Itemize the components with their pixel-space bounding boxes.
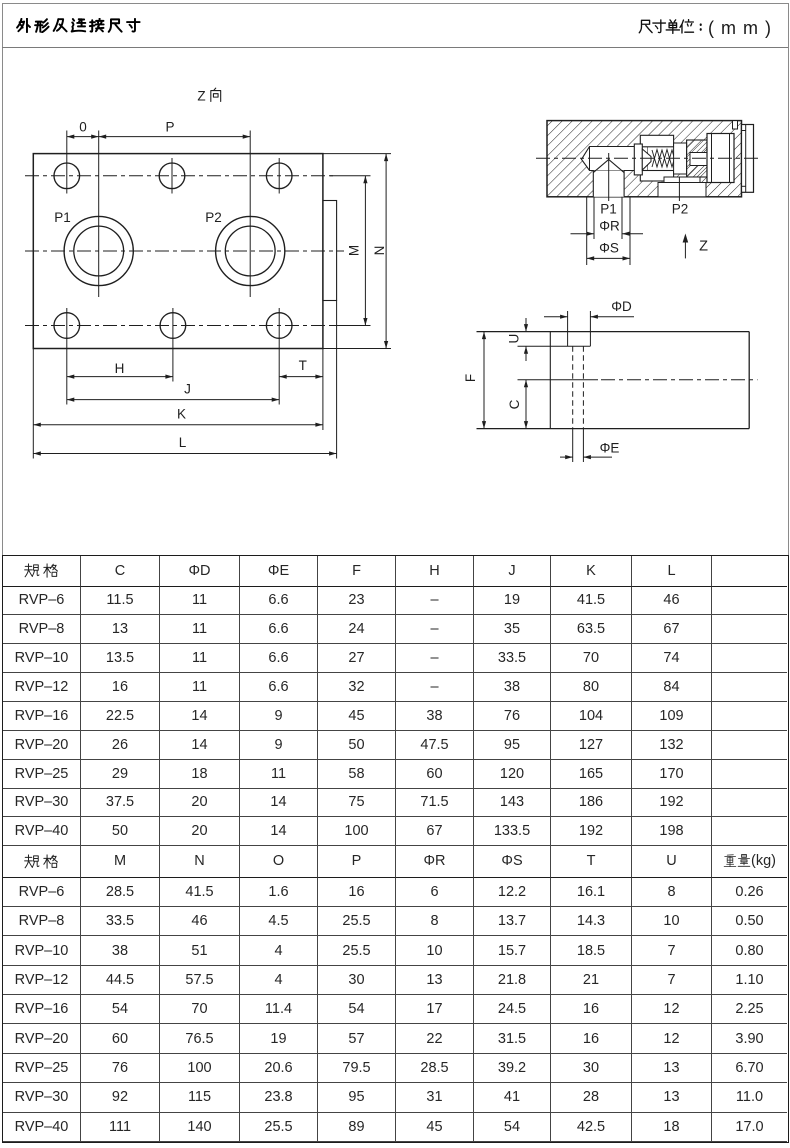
section: end cap <box>742 125 754 193</box>
centerline ports row <box>25 250 344 252</box>
CJK glyph defs <box>0 0 1 1</box>
section: seat insert (hatched) <box>687 140 707 177</box>
port hole P1 <box>64 216 133 285</box>
section: valve seat cone <box>593 160 624 173</box>
front view: side tab <box>323 201 337 301</box>
mounting hole top-right <box>266 163 292 189</box>
TABLE <box>2 555 789 1143</box>
dimension PhiS <box>587 197 630 265</box>
section: main bore cavity with drill cone <box>582 147 649 171</box>
section: spring <box>652 150 686 168</box>
section: stem <box>690 153 711 166</box>
dimension N <box>323 154 391 349</box>
section: spring cavity <box>648 147 686 171</box>
section: adjusting plug <box>707 134 734 183</box>
dimension M <box>330 176 371 326</box>
svg-text:P2: P2 <box>672 202 689 217</box>
section: top notch <box>733 121 738 129</box>
centerline top hole row <box>25 175 333 177</box>
dimension F <box>463 332 486 429</box>
svg-text:Z: Z <box>699 239 708 255</box>
svg-text:0: 0 <box>79 120 87 135</box>
svg-text:F: F <box>463 374 478 382</box>
svg-text:P2: P2 <box>205 210 222 225</box>
section: P2 passage <box>658 177 706 197</box>
mounting hole bottom-left <box>54 313 80 339</box>
svg-text:T: T <box>299 358 307 373</box>
section: spring guide <box>674 143 687 174</box>
svg-text:C: C <box>507 399 522 409</box>
svg-text:P1: P1 <box>600 202 617 217</box>
mounting hole bottom-middle <box>160 313 186 339</box>
dimension H <box>67 361 173 379</box>
svg-text:P: P <box>165 120 174 135</box>
svg-text:Z: Z <box>197 89 205 104</box>
header separator <box>2 47 788 48</box>
label Z direction (Z向) <box>197 88 220 103</box>
mounting hole bottom-right <box>266 313 292 339</box>
Z view arrow <box>683 234 708 259</box>
port hole P2 <box>216 216 285 285</box>
svg-text:M: M <box>347 245 362 256</box>
side view: counterbore walls <box>518 311 591 346</box>
section: poppet cone <box>642 149 651 170</box>
section: P1 vertical channel <box>593 171 624 197</box>
svg-text:ΦR: ΦR <box>599 219 620 234</box>
svg-text:ΦS: ΦS <box>599 241 619 256</box>
dimension PhiE <box>560 441 619 460</box>
dimension P <box>99 120 251 139</box>
dimension O <box>67 120 99 139</box>
dimension PhiR <box>571 197 644 239</box>
mounting hole top-middle <box>159 163 185 189</box>
centerline bottom hole row <box>25 325 333 327</box>
title 外形及连接尺寸 <box>16 18 147 33</box>
side view: horizontal centerline <box>518 379 758 381</box>
section: poppet disc <box>634 144 642 175</box>
page frame <box>2 3 789 555</box>
section: sleeve lower wall <box>640 171 673 182</box>
section: horizontal centerline <box>536 157 762 159</box>
svg-text:J: J <box>184 382 191 397</box>
dimension K <box>33 407 323 427</box>
mounting hole top-left <box>54 163 80 189</box>
svg-text:U: U <box>507 334 522 344</box>
dimension T <box>279 358 323 379</box>
dimension J <box>67 382 279 402</box>
side view: hidden hole lines <box>573 346 584 462</box>
svg-text:K: K <box>177 407 186 422</box>
section: P1 port centerline <box>608 153 610 201</box>
svg-text:H: H <box>115 361 125 376</box>
svg-text:N: N <box>372 246 387 256</box>
extension lines below plate <box>33 301 336 459</box>
svg-text:L: L <box>179 435 187 450</box>
尺寸单位： <box>638 19 706 34</box>
vertical centerlines of holes <box>67 131 279 405</box>
dimension L <box>33 435 336 456</box>
section: sleeve upper wall <box>640 135 673 147</box>
dimension U <box>507 318 529 361</box>
side view: plate profile <box>477 332 750 429</box>
dimension PhiD <box>544 299 634 319</box>
section view: valve body (hatched) <box>547 121 742 197</box>
svg-text:ΦE: ΦE <box>600 441 620 456</box>
section: P2 port centerline <box>678 177 680 201</box>
svg-text:ΦD: ΦD <box>611 299 632 314</box>
svg-text:P1: P1 <box>54 210 71 225</box>
front view: valve plate outline <box>33 154 323 349</box>
side view: step line <box>549 332 551 429</box>
dimension C <box>507 380 528 429</box>
